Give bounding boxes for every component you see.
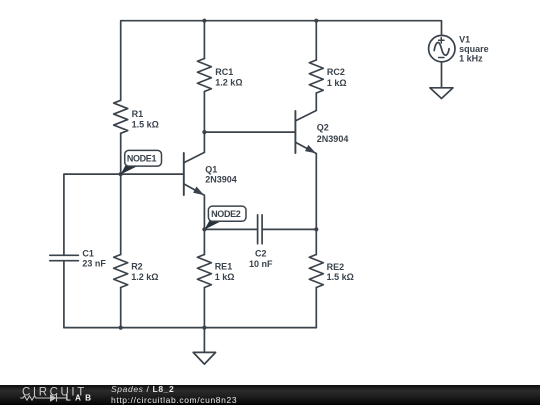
svg-text:square: square — [459, 44, 489, 54]
svg-text:1.5 kΩ: 1.5 kΩ — [132, 120, 159, 130]
svg-text:NODE2: NODE2 — [211, 209, 241, 219]
svg-text:RE1: RE1 — [215, 262, 233, 272]
svg-text:2N3904: 2N3904 — [205, 175, 237, 185]
svg-text:R1: R1 — [132, 109, 144, 119]
svg-text:10 nF: 10 nF — [249, 259, 273, 269]
svg-text:V1: V1 — [459, 35, 470, 45]
svg-text:1 kΩ: 1 kΩ — [327, 78, 347, 88]
svg-text:R2: R2 — [131, 262, 143, 272]
svg-text:RC2: RC2 — [327, 67, 345, 77]
svg-text:1 kΩ: 1 kΩ — [215, 272, 235, 282]
svg-text:1.2 kΩ: 1.2 kΩ — [215, 78, 242, 88]
svg-text:1.5 kΩ: 1.5 kΩ — [327, 272, 354, 282]
svg-text:NODE1: NODE1 — [127, 154, 157, 164]
svg-text:Q1: Q1 — [205, 165, 217, 175]
svg-text:Q2: Q2 — [317, 123, 329, 133]
svg-text:2N3904: 2N3904 — [317, 134, 349, 144]
svg-text:LAB: LAB — [66, 394, 95, 403]
svg-text:C2: C2 — [255, 249, 267, 259]
svg-text:RC1: RC1 — [215, 67, 233, 77]
svg-text:RE2: RE2 — [327, 262, 345, 272]
svg-text:1 kHz: 1 kHz — [459, 54, 483, 64]
svg-text:C1: C1 — [82, 248, 94, 258]
svg-text:1.2 kΩ: 1.2 kΩ — [131, 272, 158, 282]
svg-text:23 nF: 23 nF — [82, 259, 106, 269]
